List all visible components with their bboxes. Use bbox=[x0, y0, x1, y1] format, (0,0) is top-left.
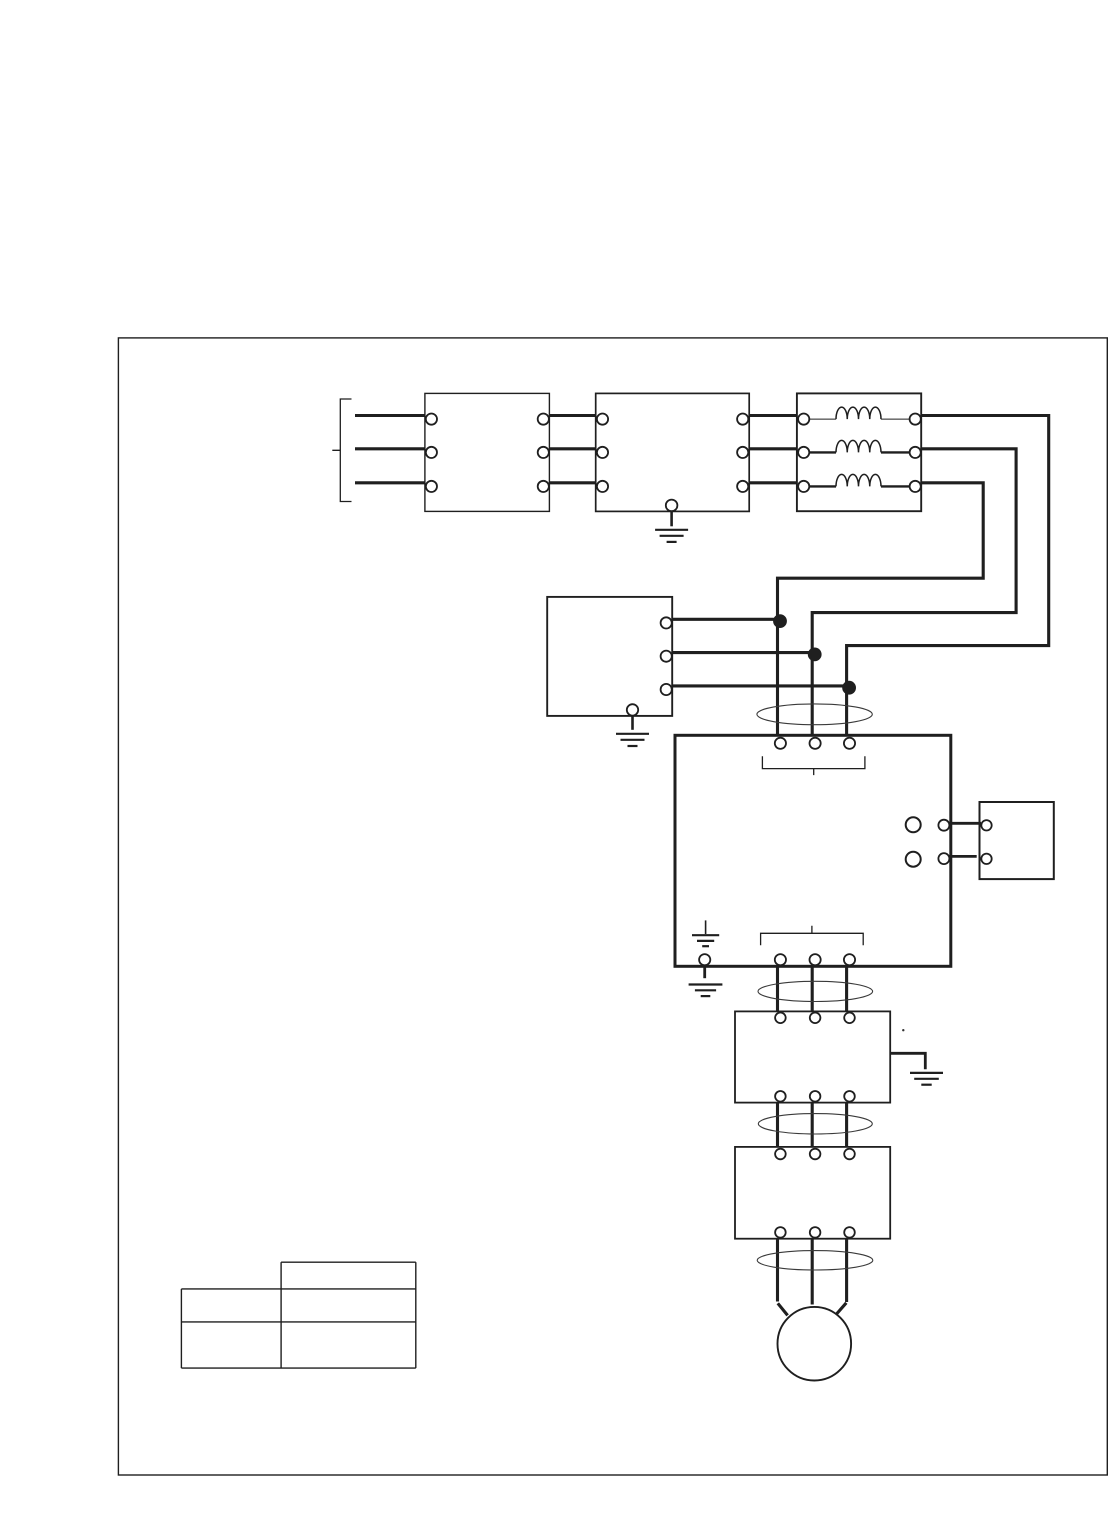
inductor coil row3 bbox=[836, 474, 881, 486]
frequency converter box bbox=[675, 735, 951, 966]
wire to motor U bbox=[776, 1239, 779, 1302]
wire drive to LCP lower bbox=[946, 855, 977, 858]
LCP terminals bbox=[981, 820, 991, 864]
wire reactor out phase2 u-turn bbox=[812, 449, 1016, 734]
filter top terminals bbox=[775, 1013, 855, 1024]
input terminal brace bbox=[762, 756, 865, 775]
junction node 3 bbox=[842, 681, 856, 695]
junction node 1 bbox=[773, 614, 787, 628]
wire to motor V bbox=[811, 1239, 814, 1305]
drive edge terminals bbox=[938, 820, 949, 864]
contactor box K1 bbox=[596, 393, 750, 511]
cable screen ellipse input bbox=[757, 704, 872, 725]
RFI filter box bbox=[547, 597, 672, 716]
wire drive out U bbox=[776, 968, 779, 1012]
motor lead slant left bbox=[778, 1303, 788, 1315]
cable screen ellipse mid bbox=[758, 1114, 872, 1134]
ground symbol under drive bbox=[689, 985, 723, 997]
ground symbol under RFI bbox=[616, 734, 649, 746]
inductor lead row1 bbox=[809, 418, 909, 420]
wire K1 to L1 reactor phase2 bbox=[749, 447, 797, 450]
wire S1 to K1 phase2 bbox=[549, 447, 595, 450]
drive input terminals 91 92 93 bbox=[775, 738, 855, 749]
wire K1 to L1 reactor phase3 bbox=[749, 481, 797, 484]
chassis ground symbol inside drive bbox=[692, 920, 719, 946]
inductor lead row2 bbox=[809, 451, 909, 453]
drive PE terminal bbox=[699, 954, 710, 965]
wire reactor out phase1 u-turn bbox=[847, 416, 1049, 735]
cable screen ellipse motor bbox=[757, 1251, 873, 1270]
filter bottom terminals bbox=[775, 1091, 855, 1102]
wire RFI to node1 bbox=[672, 618, 777, 621]
LCP box bbox=[980, 802, 1054, 879]
wire drive out W bbox=[845, 968, 848, 1012]
ground symbol right of filter bbox=[910, 1073, 943, 1085]
wire mains L3 bbox=[355, 481, 425, 484]
cable screen ellipse output bbox=[758, 981, 873, 1001]
motor terminal box bbox=[735, 1147, 890, 1239]
drive PE stem bbox=[703, 966, 706, 978]
terminals RFI right bbox=[661, 617, 672, 695]
K1 ground terminal bbox=[666, 500, 678, 512]
output filter box bbox=[735, 1011, 890, 1102]
wire mains L2 bbox=[355, 447, 425, 450]
K1 ground stem bbox=[670, 511, 673, 526]
ground symbol under K1 bbox=[655, 530, 688, 542]
inductor lead row3 bbox=[809, 485, 909, 487]
motor lead slant right bbox=[836, 1303, 846, 1315]
line reactor box L1 bbox=[797, 393, 921, 511]
RFI ground stem bbox=[631, 716, 634, 730]
wire to motor W bbox=[845, 1239, 848, 1302]
disconnect box S1 bbox=[425, 393, 550, 511]
three-phase mains bracket bbox=[332, 399, 351, 502]
speck mark bbox=[902, 1029, 904, 1031]
terminal box bottom terminals bbox=[775, 1227, 855, 1238]
motor circle M bbox=[778, 1307, 852, 1381]
wire drive out V bbox=[811, 968, 814, 1012]
filter ground wire bbox=[890, 1053, 925, 1069]
inductor coil row1 bbox=[836, 407, 881, 419]
wire reactor out phase3 u-turn bbox=[778, 483, 984, 734]
RFI ground terminal bbox=[627, 704, 638, 715]
terminals S1 right bbox=[538, 414, 549, 493]
wire K1 to L1 reactor phase1 bbox=[749, 414, 797, 417]
wire RFI to node2 bbox=[672, 651, 812, 654]
relay knockout circles bbox=[906, 817, 921, 866]
legend table bbox=[181, 1262, 415, 1368]
wire S1 to K1 phase1 bbox=[549, 414, 595, 417]
wire filter to term box V bbox=[811, 1103, 814, 1147]
terminals K1 left bbox=[597, 414, 608, 493]
diagram border frame bbox=[118, 338, 1107, 1475]
wire filter to term box U bbox=[776, 1103, 779, 1147]
wire filter to term box W bbox=[845, 1103, 848, 1147]
terminals K1 right bbox=[737, 414, 748, 493]
wire mains L1 bbox=[355, 414, 425, 417]
terminals S1 left bbox=[426, 414, 437, 493]
wire RFI to node3 bbox=[672, 684, 846, 687]
terminals L1 left bbox=[798, 414, 809, 493]
output terminal brace bbox=[761, 926, 864, 945]
wire S1 to K1 phase3 bbox=[549, 481, 595, 484]
inductor coil row2 bbox=[836, 440, 881, 452]
terminal box top terminals bbox=[775, 1149, 855, 1160]
junction node 2 bbox=[808, 648, 822, 662]
terminals L1 right bbox=[910, 414, 921, 493]
drive output terminals 96 97 98 bbox=[775, 954, 855, 965]
wire drive to LCP upper bbox=[946, 822, 981, 825]
